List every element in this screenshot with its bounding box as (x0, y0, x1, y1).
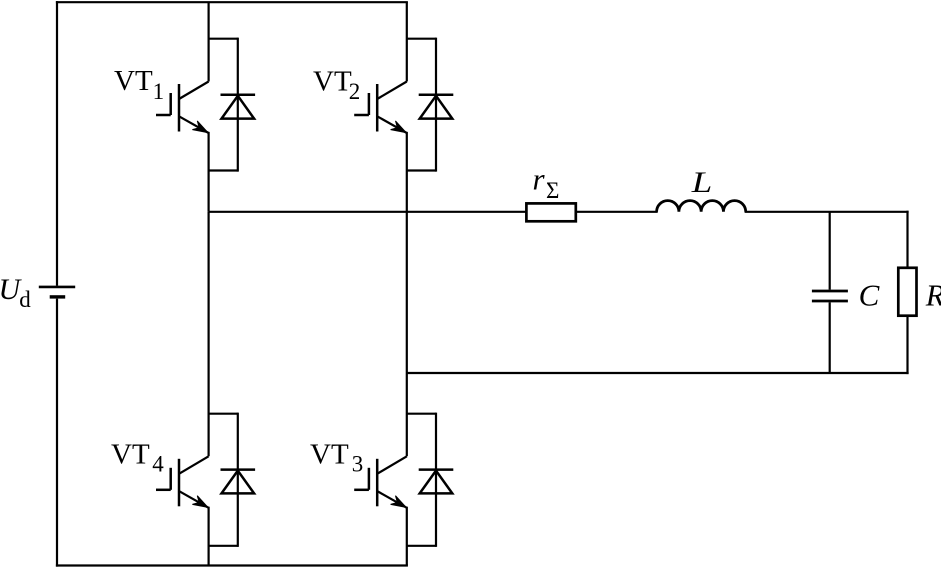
svg-text:VT: VT (111, 438, 150, 470)
wire: right-leg trunk (VT2 emitter to VT3 collector, node B) (406, 132, 408, 456)
svg-text:1: 1 (153, 79, 165, 104)
wire: VT2 collector stub from top rail (406, 2, 408, 81)
wire: load branch upper (906, 211, 908, 268)
wire: inductor L to load node (745, 211, 909, 213)
wire: VT1 antiparallel-diode branch (209, 38, 238, 172)
svg-text:d: d (19, 287, 31, 312)
wire: VT1 emitter to output node A (208, 132, 210, 212)
wire: output node A to r_sigma (209, 211, 658, 213)
wire: left DC rail lower segment (56, 299, 58, 567)
wire: left DC rail upper segment (56, 1, 58, 286)
svg-text:R: R (925, 277, 941, 312)
wire: VT2 antiparallel-diode branch (407, 38, 436, 172)
svg-text:C: C (859, 277, 880, 312)
wire: load branch lower (906, 316, 908, 375)
wire: top DC rail (56, 1, 408, 3)
svg-text:r: r (533, 162, 546, 197)
wire: VT1 collector stub from top rail (208, 2, 210, 81)
battery Ud (DC source plates) (39, 287, 75, 297)
wire: VT4 emitter to bottom rail (208, 507, 210, 566)
diode D2 (antiparallel with VT2) (419, 95, 454, 119)
diode D4 (antiparallel with VT4) (221, 470, 256, 494)
svg-text:Σ: Σ (546, 178, 559, 203)
svg-text:VT: VT (310, 439, 349, 471)
diode D1 (antiparallel with VT1) (221, 95, 256, 119)
diode D3 (antiparallel with VT3) (419, 470, 454, 494)
svg-text:4: 4 (152, 451, 164, 476)
wire: output return (lower output wire) node B to load (407, 372, 909, 374)
transistor VT4 (IGBT) (156, 456, 209, 508)
transistor VT1 (IGBT) (156, 82, 209, 134)
wire: capacitor branch lower (829, 302, 831, 373)
svg-text:VT: VT (313, 65, 352, 97)
transistor VT2 (IGBT) (354, 82, 407, 134)
resistor r_sigma (526, 203, 575, 221)
wire: VT4 antiparallel-diode branch (209, 413, 238, 547)
wire: VT3 antiparallel-diode branch (407, 413, 436, 547)
transistor VT3 (IGBT) (354, 456, 407, 508)
svg-text:2: 2 (349, 79, 361, 104)
svg-text:3: 3 (352, 452, 364, 477)
wire: capacitor branch upper (829, 212, 831, 290)
svg-text:L: L (691, 166, 713, 199)
svg-text:VT: VT (114, 65, 153, 97)
resistor R (898, 268, 916, 316)
inductor L (657, 201, 746, 212)
wire: left-leg trunk from node A to VT4 collector (208, 212, 210, 456)
wire: VT3 emitter to bottom rail (406, 507, 408, 566)
capacitor C (812, 291, 848, 301)
wire: bottom DC rail (56, 564, 408, 566)
